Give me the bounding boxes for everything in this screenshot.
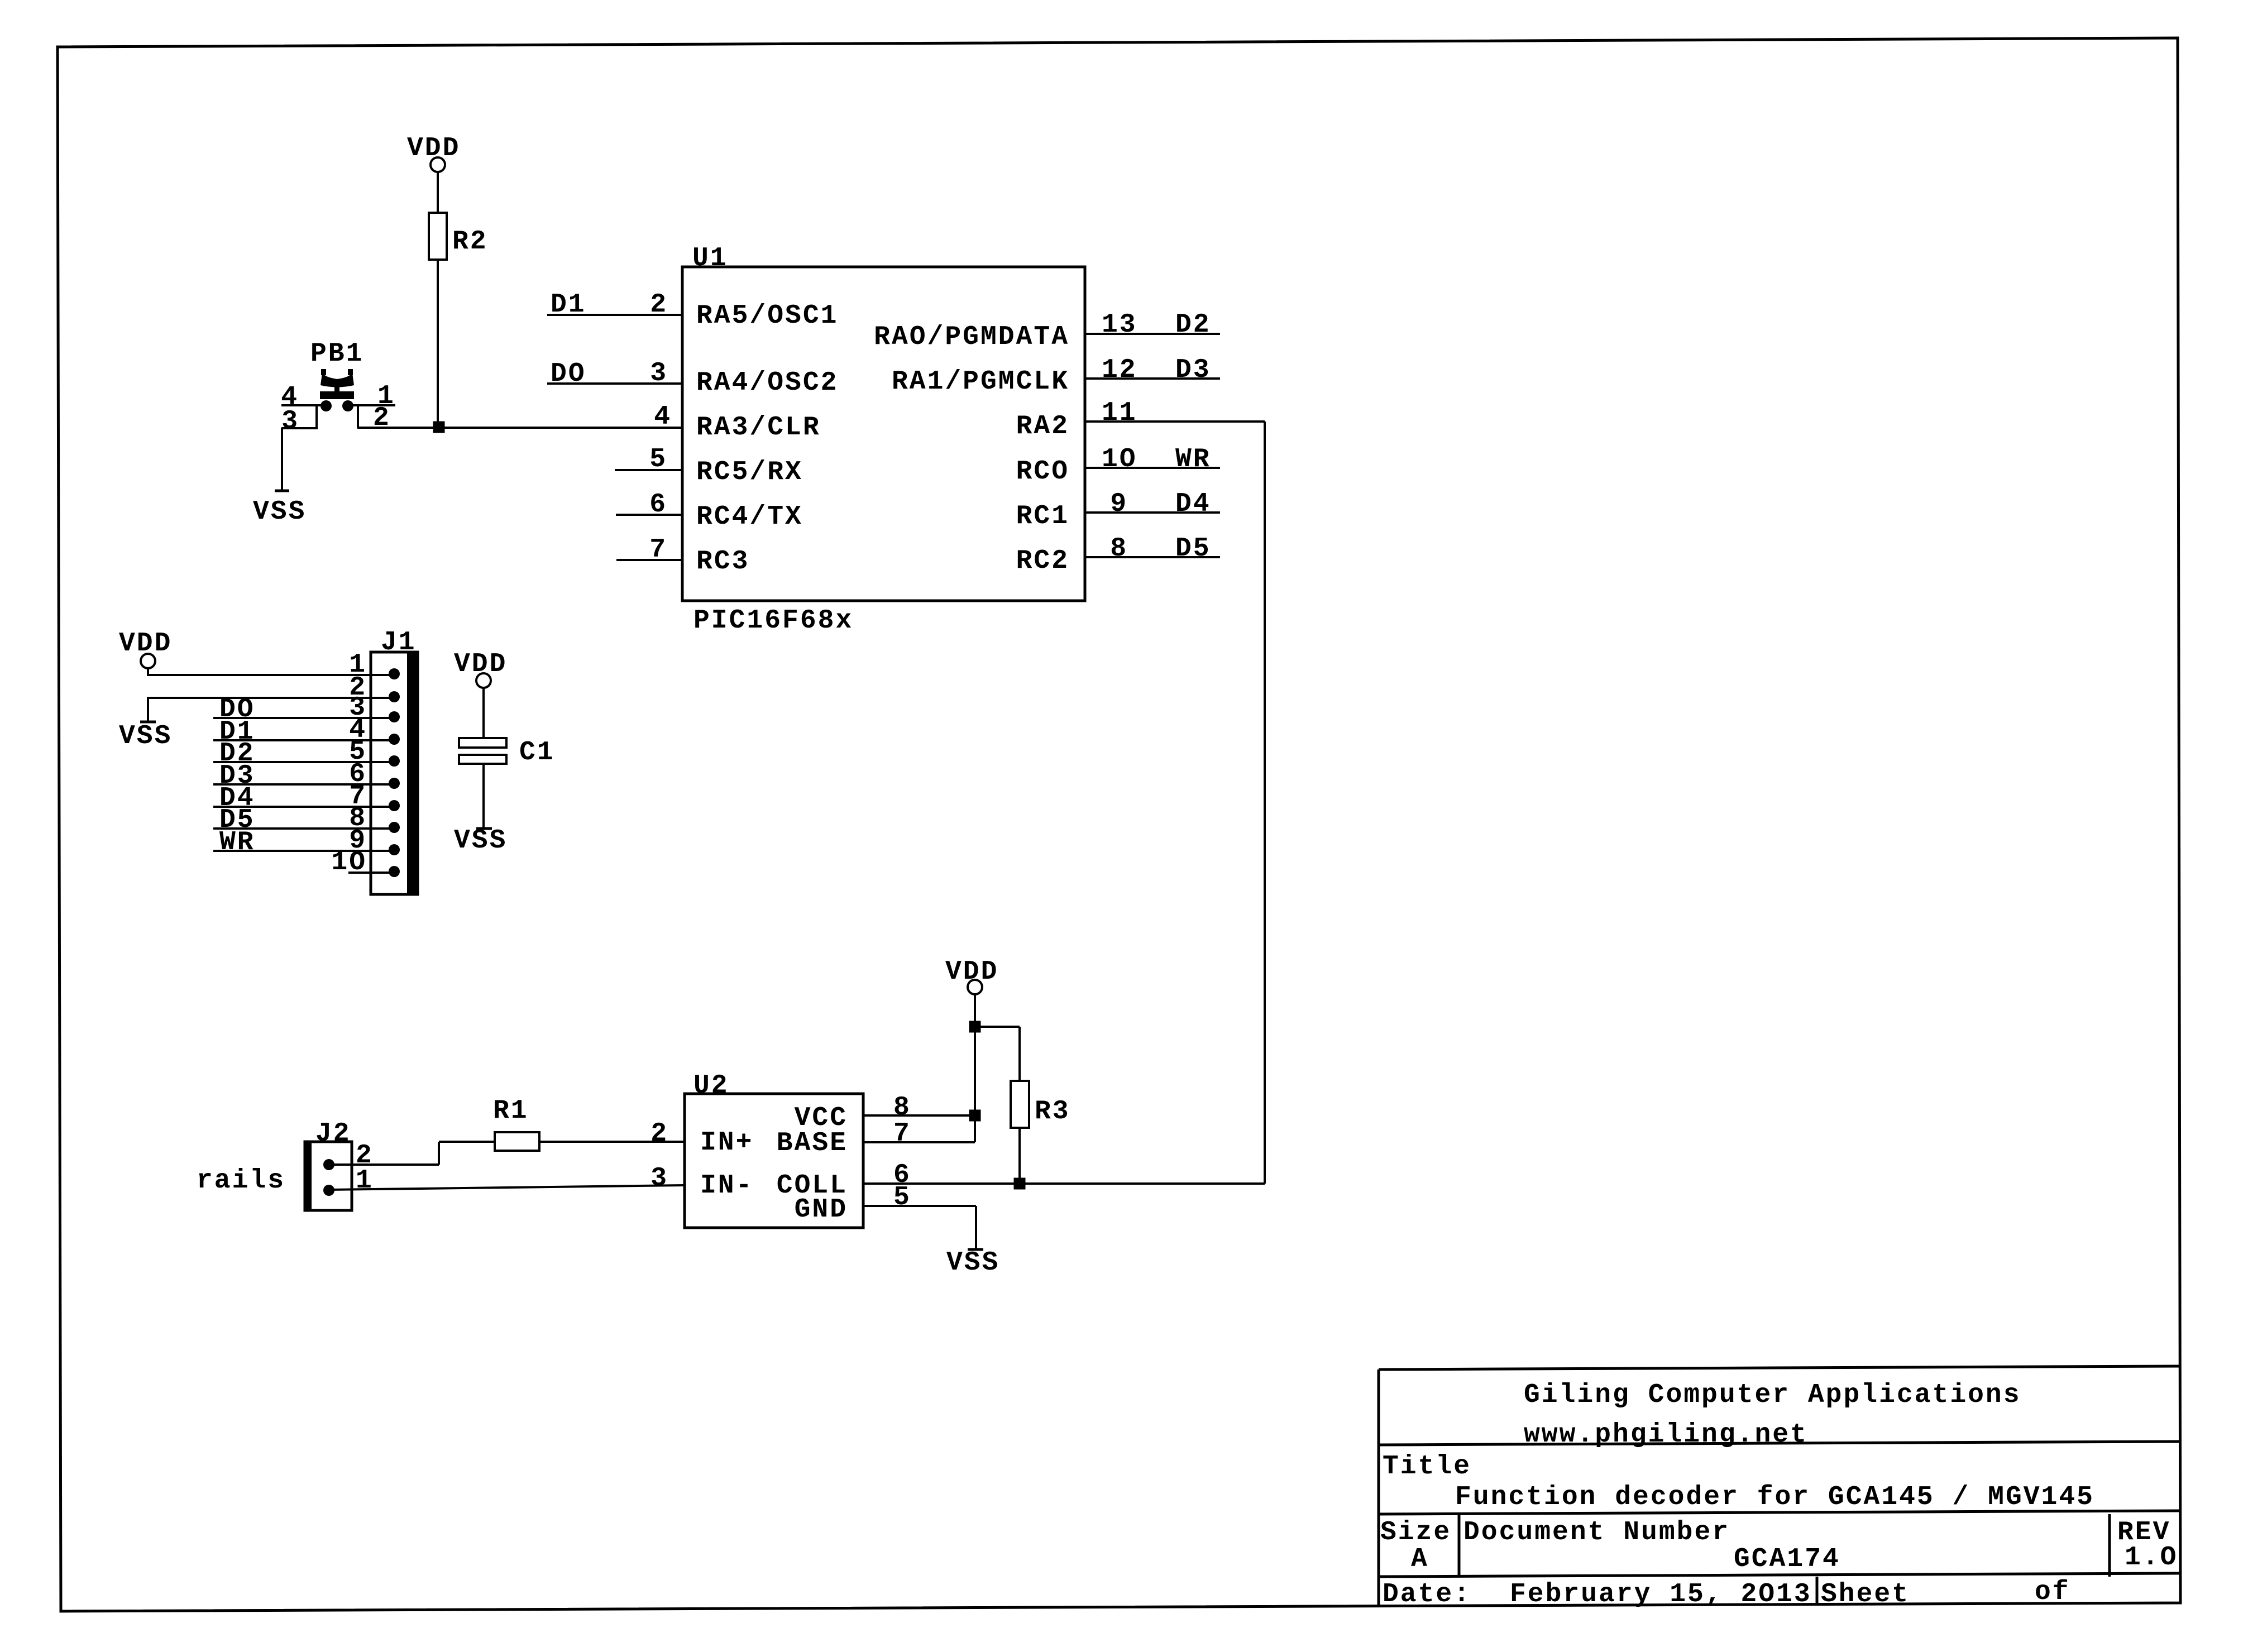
svg-text:2: 2: [373, 403, 391, 433]
svg-text:PIC16F68x: PIC16F68x: [693, 606, 853, 636]
svg-text:PB1: PB1: [310, 339, 363, 369]
svg-text:RC4/TX: RC4/TX: [696, 502, 803, 532]
svg-text:C1: C1: [519, 738, 555, 768]
svg-text:A: A: [1411, 1544, 1429, 1574]
svg-text:3: 3: [651, 1163, 668, 1194]
svg-text:2: 2: [651, 1119, 668, 1149]
svg-text:RAO/PGMDATA: RAO/PGMDATA: [874, 322, 1069, 352]
svg-text:GND: GND: [795, 1195, 848, 1225]
svg-text:D5: D5: [1175, 534, 1211, 564]
svg-text:IN-: IN-: [700, 1171, 753, 1201]
svg-text:6: 6: [649, 490, 667, 520]
svg-text:RC2: RC2: [1016, 546, 1069, 576]
svg-text:WR: WR: [1175, 444, 1211, 475]
svg-text:1.O: 1.O: [2125, 1543, 2178, 1573]
svg-text:8: 8: [1110, 534, 1128, 564]
svg-text:IN+: IN+: [700, 1128, 753, 1158]
svg-text:8: 8: [893, 1093, 911, 1123]
svg-text:RCO: RCO: [1016, 457, 1069, 487]
svg-text:VSS: VSS: [253, 497, 306, 527]
svg-text:VSS: VSS: [119, 721, 172, 751]
svg-text:RA4/OSC2: RA4/OSC2: [696, 368, 838, 398]
svg-text:RA1/PGMCLK: RA1/PGMCLK: [892, 367, 1069, 397]
svg-text:J1: J1: [381, 628, 417, 658]
svg-text:11: 11: [1102, 398, 1137, 428]
svg-text:7: 7: [649, 535, 667, 565]
svg-text:DO: DO: [551, 359, 586, 389]
svg-text:RC5/RX: RC5/RX: [696, 457, 803, 487]
svg-text:R3: R3: [1035, 1096, 1070, 1127]
svg-text:Document Number: Document Number: [1463, 1517, 1730, 1548]
svg-text:1O: 1O: [1102, 444, 1137, 475]
svg-text:VSS: VSS: [946, 1248, 999, 1278]
svg-text:U1: U1: [692, 243, 728, 274]
svg-text:Sheet: Sheet: [1821, 1579, 1910, 1610]
svg-text:3: 3: [650, 358, 668, 389]
svg-text:rails: rails: [197, 1166, 285, 1196]
svg-text:www.phgiling.net: www.phgiling.net: [1524, 1420, 1808, 1450]
svg-text:RC3: RC3: [696, 547, 749, 577]
svg-text:1: 1: [356, 1166, 374, 1196]
svg-text:U2: U2: [693, 1071, 729, 1101]
svg-text:of: of: [2035, 1577, 2070, 1607]
svg-text:Function decoder for GCA145 /: Function decoder for GCA145 / MGV145: [1455, 1482, 2094, 1512]
svg-text:5: 5: [649, 444, 667, 475]
svg-text:7: 7: [893, 1119, 911, 1149]
svg-text:13: 13: [1102, 310, 1137, 340]
svg-text:D1: D1: [551, 290, 586, 320]
svg-text:Giling Computer Applications: Giling Computer Applications: [1524, 1380, 2021, 1410]
svg-text:BASE: BASE: [777, 1128, 848, 1158]
svg-text:RC1: RC1: [1016, 501, 1069, 531]
svg-text:3: 3: [281, 406, 299, 437]
svg-text:RA5/OSC1: RA5/OSC1: [696, 301, 838, 331]
svg-text:D3: D3: [1175, 355, 1211, 385]
svg-text:12: 12: [1102, 355, 1137, 385]
svg-text:D4: D4: [1175, 489, 1211, 519]
svg-text:Title: Title: [1383, 1452, 1471, 1482]
svg-text:VDD: VDD: [945, 957, 998, 987]
svg-text:D2: D2: [1175, 310, 1211, 340]
svg-text:R1: R1: [493, 1096, 529, 1126]
svg-text:Size: Size: [1380, 1517, 1451, 1548]
svg-text:Date:: Date:: [1383, 1579, 1471, 1610]
svg-text:GCA174: GCA174: [1734, 1544, 1840, 1574]
svg-text:February 15, 2O13: February 15, 2O13: [1510, 1579, 1812, 1610]
svg-text:RA3/CLR: RA3/CLR: [696, 413, 821, 443]
svg-text:5: 5: [893, 1182, 911, 1213]
svg-text:VSS: VSS: [454, 826, 507, 856]
svg-text:R2: R2: [452, 227, 488, 257]
svg-text:J2: J2: [315, 1119, 351, 1149]
svg-text:WR: WR: [219, 827, 255, 858]
svg-text:RA2: RA2: [1016, 411, 1069, 442]
svg-text:9: 9: [1110, 489, 1128, 519]
svg-text:2: 2: [650, 290, 668, 320]
